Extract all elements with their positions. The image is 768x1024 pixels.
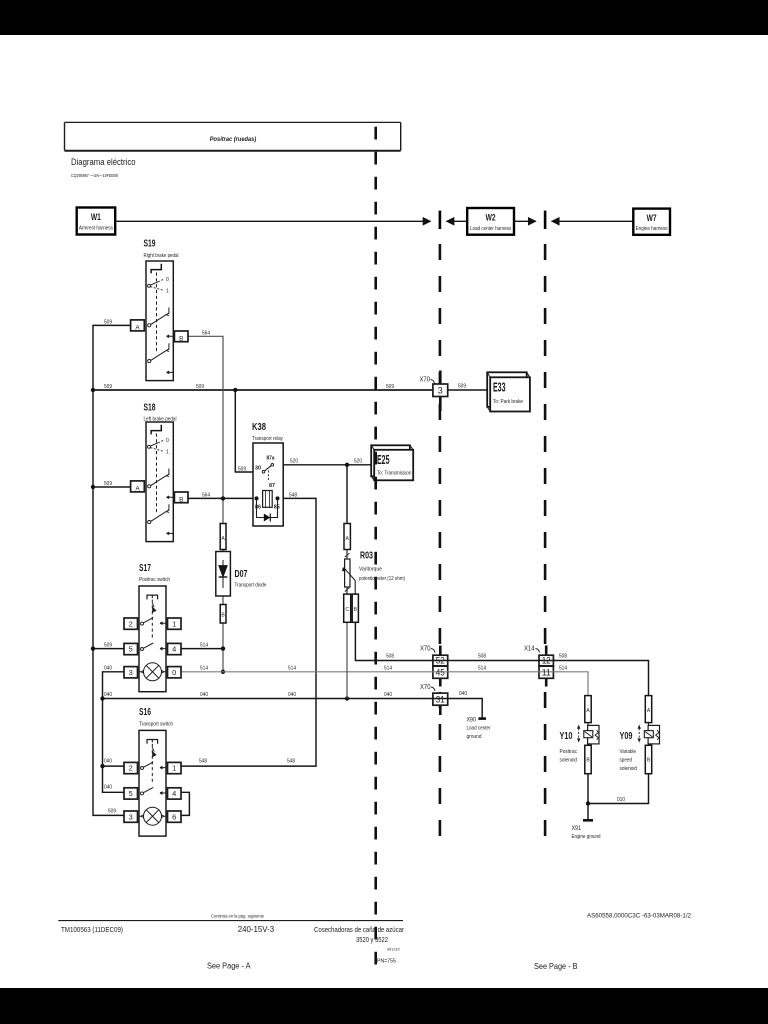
wire W2 to boundary [514,220,536,222]
relay K38 transport relay [252,422,283,526]
svg-text:X91: X91 [572,825,582,832]
svg-text:Engine harness: Engine harness [636,226,668,232]
svg-text:solenoid: solenoid [560,758,578,764]
svg-text:W1: W1 [91,212,102,223]
wire 514 gray row S17.0 to Y10 [181,672,588,696]
svg-text:4: 4 [172,645,176,654]
solenoid Y10 positrac solenoid [577,696,599,774]
wire S16 jumper 4-6 [181,792,189,815]
top letterbox bar [0,0,768,35]
connector X70 pin 3 [420,371,448,412]
svg-text:5: 5 [129,789,133,798]
ground X91 symbol [583,819,593,822]
svg-text:See Page - A: See Page - A [207,961,251,970]
wire 509 bus to K38 pin30 [235,390,254,472]
harness divider dashed line A [374,127,377,975]
svg-text:509: 509 [104,384,112,390]
svg-text:Varitorque: Varitorque [359,567,382,573]
svg-text:3: 3 [129,812,133,821]
node junction 509/S18.A [91,485,95,489]
node junction 040/S17.3 [100,696,104,700]
node junction bus/K38 feed [233,388,237,392]
svg-text:C: C [345,607,349,613]
svg-text:040: 040 [104,666,112,672]
svg-text:4: 4 [172,789,176,798]
connector X70 pin 31 [420,684,449,715]
svg-text:potentiometer (12 ohm): potentiometer (12 ohm) [359,576,405,582]
connector E33 to park brake [487,372,530,411]
connector X70 pin 52 [420,646,449,666]
harness boundary bar right [544,211,547,229]
relay coil [263,491,273,508]
wire D07 interlinks [222,549,224,672]
svg-text:W2: W2 [486,213,496,224]
node junction X91 ground [586,801,590,805]
svg-text:TM100563 (11DEC09): TM100563 (11DEC09) [61,925,123,934]
node coil pin 85 [276,496,280,500]
svg-text:CQ286967 —UN—19FEB08: CQ286967 —UN—19FEB08 [71,173,118,178]
switch S17 positrac switch [124,586,181,692]
switch S16 transport switch [124,730,181,836]
svg-text:509: 509 [104,481,112,487]
svg-text:1: 1 [172,619,176,628]
switch S18 left brake pedal [131,422,188,542]
svg-text:E33: E33 [493,381,506,395]
svg-text:509: 509 [108,809,116,815]
node coil pin 86 [255,496,259,500]
node junction 564/K38 row [221,496,225,500]
footer rule [58,920,403,922]
svg-text:To: Transmission: To: Transmission [377,471,412,477]
svg-text:86: 86 [255,505,261,511]
connector X14 pin 11 [538,666,556,686]
svg-text:548: 548 [199,759,207,765]
svg-text:5: 5 [129,645,133,654]
svg-text:Positrac switch: Positrac switch [139,577,170,583]
svg-text:87: 87 [269,483,275,489]
svg-text:520: 520 [290,459,298,465]
bottom letterbox bar [0,988,768,1024]
node junction 520/R03 [345,463,349,467]
svg-text:X70: X70 [420,646,431,653]
diode D07 transport diode [216,524,267,624]
svg-text:514: 514 [288,666,296,672]
svg-text:Diagrama eléctrico: Diagrama eléctrico [71,157,136,167]
wire R03.C drop [346,622,348,698]
svg-text:52: 52 [436,656,445,666]
svg-text:K38: K38 [252,422,266,433]
node junction 040/R03.C [345,696,349,700]
wire 010 Y09.B to ground node [588,774,649,804]
svg-text:S16: S16 [139,707,151,718]
wire S16.2 lead [103,765,124,767]
svg-text:6: 6 [172,812,176,821]
svg-text:3: 3 [438,386,443,396]
svg-text:W7: W7 [647,213,657,224]
svg-text:E25: E25 [377,453,390,467]
svg-text:509: 509 [458,384,466,390]
svg-text:564: 564 [202,330,210,336]
svg-text:Load center: Load center [467,726,491,732]
svg-text:X70: X70 [420,377,431,384]
svg-text:Continúa en la pág. siguiente: Continúa en la pág. siguiente [211,914,265,919]
svg-text:040: 040 [384,692,392,698]
wire boundary to W7 [552,220,634,222]
svg-text:30: 30 [255,465,261,471]
svg-text:Transport switch: Transport switch [139,722,173,728]
svg-text:2: 2 [129,764,133,773]
svg-text:040: 040 [288,692,296,698]
svg-text:0: 0 [172,668,176,677]
svg-text:514: 514 [200,666,208,672]
svg-text:speed: speed [620,758,633,764]
svg-text:514: 514 [384,666,392,672]
svg-text:87a: 87a [267,455,276,461]
svg-text:040: 040 [459,691,467,697]
svg-text:1: 1 [172,764,176,773]
header bracket frame [65,122,401,150]
svg-text:Positrac (ruedas): Positrac (ruedas) [210,136,257,143]
svg-text:548: 548 [287,759,295,765]
harness W2 box [467,208,514,235]
wire 509 bus to X70 [93,389,433,391]
svg-text:509: 509 [196,384,204,390]
svg-text:85: 85 [274,505,280,511]
wire 509 left vertical trunk [93,325,131,815]
svg-text:240-15V-3: 240-15V-3 [238,924,275,934]
svg-text:Variable: Variable [620,749,637,755]
node junction S17.4/D07 [221,646,225,650]
svg-text:45: 45 [436,668,445,678]
svg-text:509: 509 [104,643,112,649]
svg-text:514: 514 [200,643,208,649]
svg-text:Y09: Y09 [620,731,633,742]
svg-text:AS60558,0000C3C -63-03MAR08-1/: AS60558,0000C3C -63-03MAR08-1/2 [587,912,691,919]
svg-text:S17: S17 [139,563,151,574]
svg-text:Left brake pedal: Left brake pedal [144,417,177,423]
harness divider dashed line C [544,244,547,843]
wire Y10.B to ground node [587,774,589,804]
harness boundary bar left [439,211,442,229]
wire boundary to W2 [447,220,468,222]
svg-text:548: 548 [289,492,297,498]
svg-text:Y10: Y10 [560,731,573,742]
svg-text:S18: S18 [144,403,156,414]
wire S18.A lead [93,486,131,488]
wire S17.4 to D07 node [181,648,223,650]
ground X90 symbol [478,717,486,720]
suppression diode loop [257,498,278,517]
svg-text:11: 11 [542,668,551,678]
svg-text:Transport diode: Transport diode [235,583,267,589]
svg-text:514: 514 [559,666,567,672]
wire 564 S19.B down to D07 [188,336,223,523]
svg-text:514: 514 [478,666,486,672]
svg-text:2: 2 [129,619,133,628]
svg-text:Cosechadoras de caña de azúcar: Cosechadoras de caña de azúcar [314,925,404,934]
svg-text:509: 509 [104,320,112,326]
node junction 040/S16.2 [100,764,104,768]
svg-text:D07: D07 [235,569,248,580]
svg-text:061210: 061210 [387,948,400,952]
svg-text:R03: R03 [360,551,373,562]
wire to X91 ground [587,804,589,820]
svg-text:508: 508 [386,654,394,660]
svg-text:040: 040 [200,692,208,698]
svg-text:040: 040 [104,692,112,698]
harness W7 box [633,209,670,235]
relay blade [265,466,272,471]
svg-text:S19: S19 [144,239,156,250]
pin labels S16 [129,764,177,822]
svg-text:509: 509 [386,384,394,390]
pin labels S17 [129,619,177,677]
wire 520 drop to R03.A [346,465,348,524]
svg-text:PN=755: PN=755 [377,959,396,965]
svg-text:12: 12 [542,656,551,666]
wire 040 X70.31 to X90 ground [448,699,483,719]
svg-text:3: 3 [129,668,133,677]
svg-text:X70: X70 [420,684,431,691]
svg-text:X14: X14 [524,646,535,653]
potentiometer R03 varitorque [342,524,405,623]
switch S19 right brake pedal [131,261,188,381]
diode K38 internal [264,514,271,522]
svg-text:Positrac: Positrac [560,749,578,755]
svg-text:040: 040 [104,759,112,765]
svg-text:564: 564 [202,492,210,498]
svg-text:Load center harness: Load center harness [470,226,511,232]
wire 508 R03.B to Y09 [355,622,648,696]
harness W1 box [77,208,116,235]
svg-text:To: Park brake: To: Park brake [493,399,523,405]
svg-text:Transport relay: Transport relay [252,436,283,442]
node junction 509/S17.5 [91,646,95,650]
connector X70 pin 45 [432,666,450,686]
svg-text:508: 508 [478,654,486,660]
svg-text:Armrest harness: Armrest harness [79,226,113,232]
svg-text:See Page - B: See Page - B [534,962,578,971]
svg-text:Engine ground: Engine ground [572,834,601,840]
svg-text:520: 520 [354,459,362,465]
svg-text:Right brake pedal: Right brake pedal [144,253,179,259]
wire W1 to boundary [115,220,430,222]
connector E25 to transmission [371,427,413,481]
solenoid Y09 variable speed solenoid [638,696,660,774]
svg-text:ground: ground [467,734,482,740]
node junction 509/bus [91,388,95,392]
connector X14 pin 12 [524,646,555,666]
wire 564/548 S18.B to K38 to S16.1 [181,498,316,766]
harness divider dashed line B [439,244,442,843]
svg-text:010: 010 [617,797,625,803]
wire 040 row to X70.31 [103,698,434,700]
wire 520 K38 to E25 [273,464,378,466]
svg-text:3520 y 3522: 3520 y 3522 [356,935,388,944]
wire S17.5 lead [93,648,124,650]
svg-text:solenoid: solenoid [620,766,638,772]
svg-text:508: 508 [559,654,567,660]
node junction 514 row [221,670,225,674]
svg-text:040: 040 [104,785,112,791]
svg-text:31: 31 [436,694,445,704]
wire S17.3 drop to S16 [103,672,124,793]
wire 509 X70 to E33 [448,389,490,391]
svg-text:X90: X90 [467,717,477,724]
svg-text:509: 509 [238,466,246,472]
